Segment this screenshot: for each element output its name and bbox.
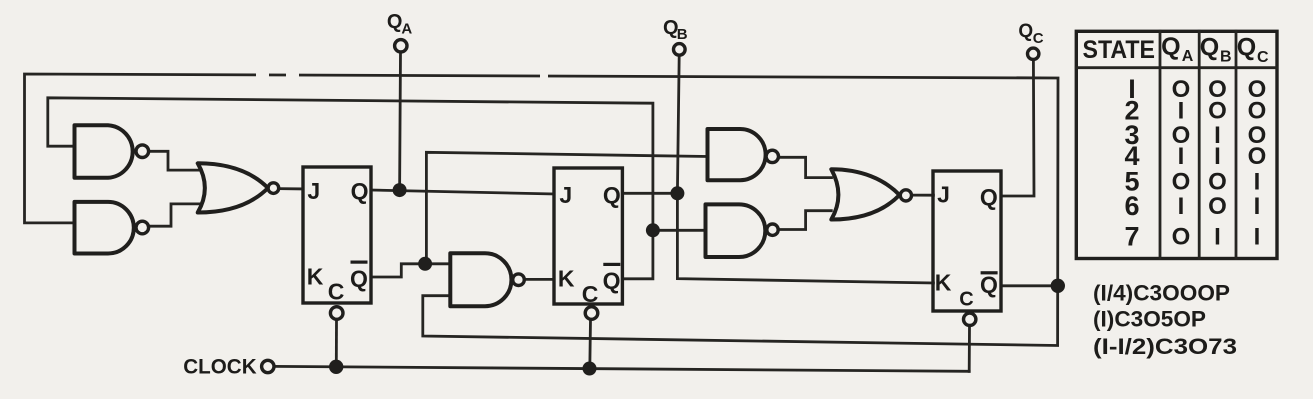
- svg-text:Q: Q: [387, 11, 403, 33]
- svg-text:I: I: [1254, 193, 1261, 220]
- svg-text:J: J: [937, 182, 950, 208]
- svg-text:J: J: [307, 178, 320, 204]
- svg-text:Q: Q: [350, 266, 368, 292]
- svg-text:Q: Q: [980, 272, 998, 298]
- svg-text:C: C: [582, 281, 599, 307]
- svg-text:O: O: [1248, 97, 1267, 124]
- svg-text:Q: Q: [1161, 33, 1180, 61]
- svg-text:(I-I/2)C3O73: (I-I/2)C3O73: [1093, 334, 1237, 359]
- svg-text:I: I: [1178, 97, 1185, 124]
- svg-text:(I/4)C3OOOP: (I/4)C3OOOP: [1093, 281, 1230, 306]
- svg-text:K: K: [558, 266, 575, 292]
- svg-text:I: I: [1178, 143, 1185, 170]
- svg-text:I: I: [1254, 169, 1261, 196]
- svg-text:Q: Q: [980, 184, 998, 210]
- svg-text:O: O: [1208, 193, 1227, 220]
- svg-text:C: C: [1257, 49, 1269, 66]
- svg-text:STATE: STATE: [1083, 36, 1156, 64]
- svg-text:B: B: [677, 26, 688, 43]
- svg-text:O: O: [1208, 97, 1227, 124]
- svg-text:K: K: [935, 270, 952, 296]
- svg-text:6: 6: [1124, 191, 1139, 221]
- svg-text:CLOCK: CLOCK: [183, 356, 256, 379]
- svg-text:7: 7: [1124, 222, 1139, 252]
- svg-text:A: A: [401, 20, 412, 37]
- svg-text:I: I: [1254, 224, 1261, 251]
- svg-text:A: A: [1182, 48, 1194, 65]
- svg-text:O: O: [1172, 169, 1191, 196]
- svg-text:J: J: [559, 182, 572, 208]
- svg-text:O: O: [1248, 143, 1267, 170]
- svg-text:I: I: [1214, 224, 1221, 251]
- svg-text:Q: Q: [1200, 34, 1219, 62]
- svg-text:B: B: [1220, 49, 1232, 66]
- svg-text:O: O: [1172, 224, 1191, 251]
- svg-text:Q: Q: [351, 178, 369, 204]
- svg-text:Q: Q: [1237, 34, 1256, 62]
- svg-text:I: I: [1178, 193, 1185, 220]
- svg-text:C: C: [1033, 30, 1044, 47]
- svg-text:(I)C3O5OP: (I)C3O5OP: [1093, 307, 1206, 332]
- svg-text:Q: Q: [603, 182, 621, 208]
- svg-text:I: I: [1214, 143, 1221, 170]
- svg-text:Q: Q: [1018, 21, 1033, 42]
- svg-text:O: O: [1208, 169, 1227, 196]
- svg-text:K: K: [307, 263, 324, 289]
- svg-text:C: C: [328, 279, 345, 305]
- svg-text:Q: Q: [603, 268, 621, 294]
- svg-text:C: C: [959, 289, 973, 311]
